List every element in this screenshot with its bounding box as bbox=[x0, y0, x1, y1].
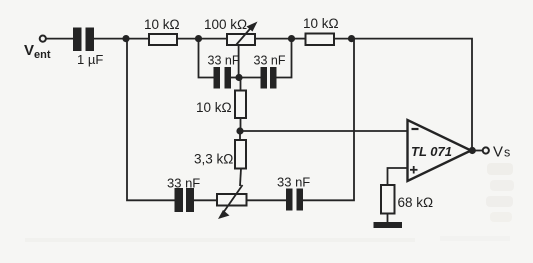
op-amp U1 TL 071 bbox=[408, 120, 472, 181]
resistor R1 10 kOhm bbox=[149, 34, 177, 45]
capacitor C1 1uF bbox=[73, 28, 82, 52]
svg-text:68 kΩ: 68 kΩ bbox=[398, 195, 434, 210]
resistor R3 10 kOhm vertical bbox=[235, 91, 246, 119]
input terminal Vent bbox=[40, 36, 46, 42]
svg-text:V: V bbox=[24, 42, 34, 59]
node F bbox=[236, 127, 243, 134]
svg-text:10 kΩ: 10 kΩ bbox=[196, 100, 232, 115]
wire plus input to R5 bbox=[388, 168, 408, 185]
svg-text:TL 071: TL 071 bbox=[411, 144, 452, 159]
svg-text:100 kΩ: 100 kΩ bbox=[204, 17, 247, 32]
capacitor C2 33 nF bbox=[214, 67, 221, 89]
svg-text:ent: ent bbox=[34, 49, 51, 61]
wire input to C1 bbox=[46, 38, 73, 40]
wire node D to R3 bbox=[240, 78, 242, 91]
wire node A down to bottom rail and to C4 bbox=[126, 39, 175, 201]
wire C5 to bottom-right corner up to node C bbox=[303, 39, 354, 201]
svg-text:33 nF: 33 nF bbox=[254, 54, 286, 68]
wire C1 to node A bbox=[94, 38, 126, 40]
ground bbox=[374, 222, 403, 228]
wire node F to R4 bbox=[239, 131, 241, 140]
capacitor C3 33 nF bbox=[261, 67, 268, 89]
wire R2 to node C bbox=[334, 38, 352, 40]
potentiometer P2 bbox=[217, 194, 247, 206]
wire C2 to node D bbox=[231, 77, 239, 79]
wire R5 to ground bbox=[387, 214, 389, 224]
node C bbox=[348, 35, 355, 42]
svg-text:33 nF: 33 nF bbox=[277, 175, 310, 190]
capacitor C5 33 nF bbox=[286, 189, 293, 211]
wire node A to R1 bbox=[126, 38, 149, 40]
wire node C to output corner bbox=[352, 39, 473, 147]
wire R1 to node B bbox=[177, 38, 199, 40]
wire node F to op-amp minus input bbox=[240, 130, 408, 132]
svg-text:1 µF: 1 µF bbox=[77, 52, 103, 67]
resistor R4 3.3 kOhm bbox=[235, 140, 246, 169]
potentiometer P1 100 kOhm bbox=[227, 34, 255, 45]
svg-text:33 nF: 33 nF bbox=[167, 176, 200, 191]
wire P1 to node E bbox=[255, 38, 292, 40]
node E bbox=[288, 35, 295, 42]
svg-text:V: V bbox=[493, 144, 503, 161]
svg-text:33 nF: 33 nF bbox=[208, 54, 240, 68]
faint ghost print-through right side bbox=[487, 163, 513, 175]
output terminal Vs bbox=[483, 147, 489, 153]
wire node B down to C2 bbox=[199, 39, 214, 78]
svg-text:10 kΩ: 10 kΩ bbox=[144, 17, 180, 32]
wire node D to C3 bbox=[239, 77, 261, 79]
faint scan smudge bottom bbox=[25, 238, 415, 242]
wire P2 to C5 bbox=[247, 199, 287, 201]
wire node B to P1 bbox=[199, 38, 228, 40]
svg-text:s: s bbox=[504, 146, 510, 160]
wire output node to terminal bbox=[472, 150, 482, 152]
wire C3 up to node E bbox=[277, 39, 292, 78]
resistor R5 68 kOhm bbox=[381, 185, 395, 214]
wire P1 wiper down to node D bbox=[238, 45, 240, 78]
output node bbox=[469, 147, 476, 154]
wire R4 to P2 wiper bbox=[240, 169, 241, 187]
node A bbox=[122, 35, 129, 42]
svg-text:3,3 kΩ: 3,3 kΩ bbox=[194, 152, 233, 167]
wire node E to R2 bbox=[292, 38, 306, 40]
resistor R2 10 kOhm bbox=[306, 34, 335, 46]
svg-text:10 kΩ: 10 kΩ bbox=[303, 16, 339, 31]
capacitor C4 33 nF bbox=[175, 188, 184, 212]
node B bbox=[195, 35, 202, 42]
wire C4 to P2 bbox=[194, 199, 217, 201]
wire R3 to node F bbox=[240, 118, 242, 131]
node D bbox=[235, 74, 242, 81]
